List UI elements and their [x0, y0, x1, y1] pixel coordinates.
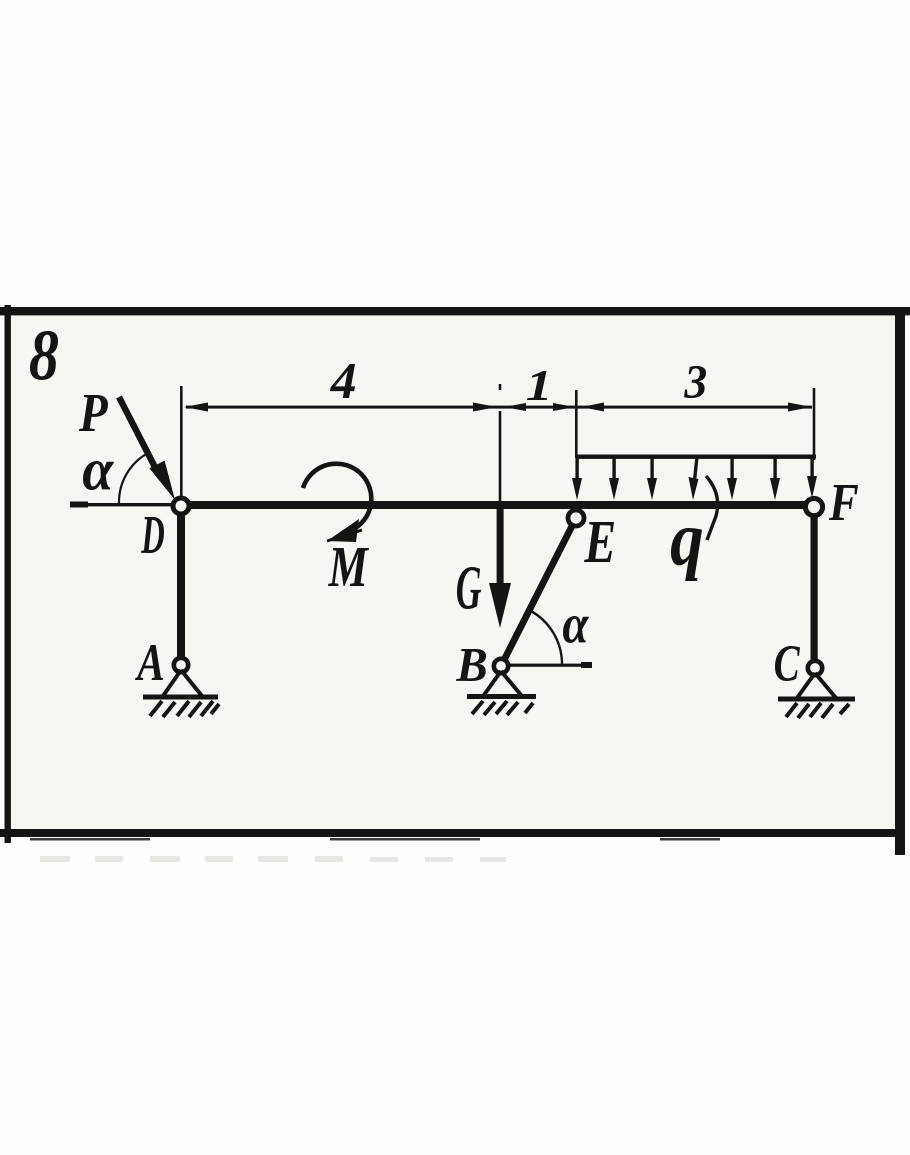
pin joint B — [494, 659, 508, 673]
pin joint C — [808, 661, 822, 675]
label alpha at D — [83, 461, 114, 490]
angle arc alpha at D — [119, 452, 150, 503]
label 3 — [684, 366, 706, 398]
ground hatching at A — [150, 701, 219, 717]
ground hatching at B — [472, 701, 533, 715]
force P — [119, 397, 175, 500]
label alpha at B — [563, 616, 589, 643]
pin joint F — [805, 498, 822, 515]
label G — [457, 567, 481, 609]
label C — [775, 646, 800, 681]
label F — [829, 485, 858, 520]
pin joint D — [173, 498, 189, 514]
bar FC — [811, 516, 818, 662]
support triangle B — [467, 671, 536, 699]
label M — [328, 548, 369, 586]
distributed load q top line — [576, 455, 816, 459]
support triangle A — [143, 670, 218, 700]
label q — [671, 528, 702, 581]
moment M arrow — [303, 464, 371, 542]
label A — [135, 645, 163, 680]
label D — [141, 517, 164, 553]
faint scan smudge row — [40, 856, 506, 862]
ground hatching at C — [786, 703, 849, 718]
problem number 8 — [30, 331, 58, 380]
angle arc alpha at B — [529, 610, 562, 665]
dimension line 4-1-3 — [184, 403, 812, 412]
reference line at B — [505, 662, 592, 668]
pin joint E — [568, 510, 584, 526]
bar DA — [177, 514, 185, 659]
extension line at load start — [575, 390, 578, 458]
label 1 — [527, 371, 547, 400]
bar EB — [503, 526, 572, 662]
force G — [489, 506, 511, 628]
reference line at D — [70, 502, 174, 508]
extension line at D — [180, 386, 183, 496]
beam DF — [178, 501, 812, 509]
q leader curve — [706, 476, 718, 540]
label P — [79, 395, 108, 431]
label 4 — [330, 364, 355, 398]
distributed load arrows — [572, 458, 817, 500]
label B — [456, 649, 486, 681]
extension line at F — [813, 388, 816, 460]
extension line at G — [499, 384, 502, 502]
label E — [584, 522, 614, 562]
support triangle C — [778, 673, 855, 702]
pin joint A — [174, 658, 188, 672]
